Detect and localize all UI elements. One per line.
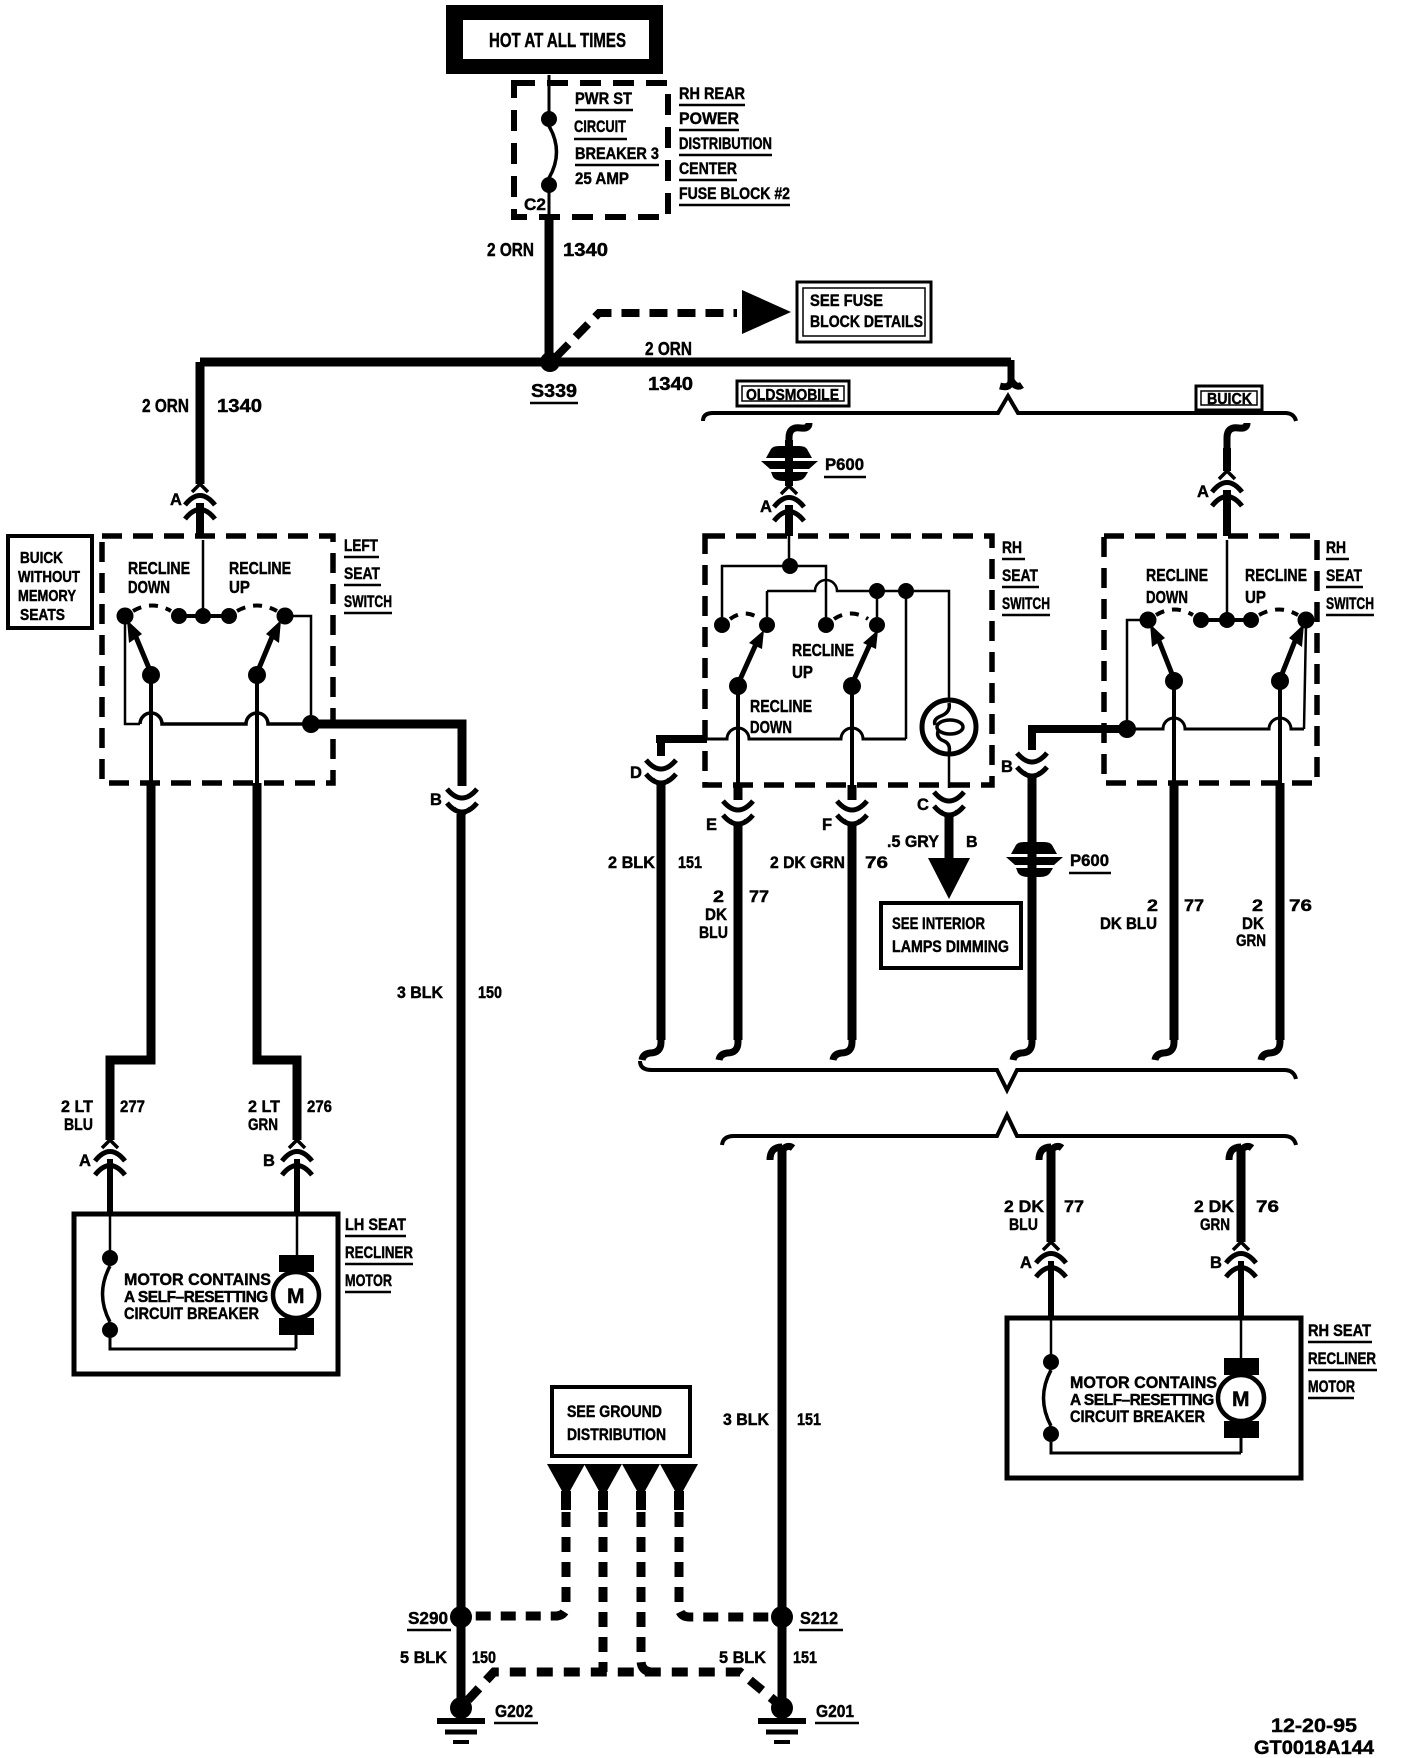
connector B rh motor	[1210, 1242, 1256, 1318]
wire 2 DK BLU 77 to rh motor	[1039, 1146, 1062, 1242]
arrowhead	[742, 290, 791, 334]
svg-text:5 BLK: 5 BLK	[719, 1648, 767, 1667]
svg-text:MEMORY: MEMORY	[18, 588, 77, 605]
label 2 DK BLU 77 (rh motor)	[1004, 1197, 1084, 1234]
wire recline-down output (buick)	[1172, 688, 1176, 783]
svg-text:C2: C2	[524, 195, 546, 214]
splice S290	[450, 1606, 472, 1628]
svg-text:MOTOR CONTAINS: MOTOR CONTAINS	[124, 1270, 271, 1289]
svg-text:BUICK: BUICK	[20, 550, 64, 567]
svg-text:SWITCH: SWITCH	[1002, 595, 1050, 613]
wire feed into buick switch	[1226, 540, 1229, 616]
svg-text:RECLINER: RECLINER	[1308, 1350, 1376, 1368]
label LH SEAT RECLINER MOTOR	[345, 1216, 413, 1292]
svg-text:150: 150	[472, 1648, 496, 1667]
svg-text:SEE GROUND: SEE GROUND	[567, 1403, 662, 1421]
connector A buick switch	[1197, 471, 1242, 536]
switch wiper recline down	[127, 620, 160, 684]
svg-text:5 BLK: 5 BLK	[400, 1648, 448, 1667]
ground arrow 4	[660, 1464, 698, 1510]
svg-text:SEE INTERIOR: SEE INTERIOR	[892, 915, 985, 933]
svg-text:LH SEAT: LH SEAT	[345, 1216, 406, 1234]
connector P600 lower	[1006, 842, 1111, 877]
svg-text:2: 2	[1252, 896, 1263, 915]
wire feed into switch	[202, 540, 205, 612]
SECTION: rh motor	[640, 1061, 1377, 1702]
switch wiper recline up	[248, 620, 281, 684]
hook end buick up wire	[1261, 1036, 1280, 1060]
rh motor internal breaker	[1043, 1318, 1241, 1453]
wire recline-up output (buick)	[1278, 688, 1282, 783]
see interior lamps dimming box	[881, 903, 1021, 968]
svg-text:D: D	[630, 764, 642, 782]
svg-text:GT0018A144: GT0018A144	[1254, 1737, 1374, 1758]
wire left outer contact down	[125, 624, 140, 724]
wire right outer contact down (buick)	[1304, 625, 1306, 729]
svg-text:276: 276	[307, 1097, 332, 1116]
svg-text:UP: UP	[792, 662, 813, 682]
wire switch output to B connector (buick)	[1032, 729, 1127, 750]
hook end D	[642, 1036, 661, 1060]
label RECLINE DOWN / RECLINE UP (buick)	[1146, 565, 1307, 607]
svg-text:1340: 1340	[563, 240, 608, 260]
dashed arrow wire to fuse block details	[556, 313, 737, 357]
label 2 DK BLU 77 (buick)	[1100, 896, 1204, 933]
label RH SEAT SWITCH (buick)	[1326, 539, 1374, 615]
buick box	[1196, 386, 1262, 410]
wire 2 BLK 151 down	[657, 785, 666, 1040]
bridge line upper with hop	[767, 580, 949, 698]
SECTION: footer	[1254, 1716, 1374, 1758]
internal feed line with hops	[140, 713, 311, 724]
svg-text:G202: G202	[495, 1701, 533, 1721]
svg-text:G201: G201	[816, 1701, 854, 1721]
thick D stub out of box	[656, 739, 707, 756]
rh seat switch dashed box (olds)	[705, 536, 992, 785]
wire recline down to motor A	[110, 783, 151, 1140]
buick without memory seats box	[8, 536, 92, 628]
lh motor internal breaker	[102, 1214, 296, 1349]
rh seat switch dashed box (buick)	[1104, 536, 1317, 783]
svg-text:M: M	[1232, 1388, 1250, 1411]
label RECLINE DOWN (olds)	[750, 696, 812, 737]
arrow to interior lamps dimming	[928, 817, 970, 899]
connector A lh motor	[79, 1140, 125, 1214]
svg-text:RH SEAT: RH SEAT	[1308, 1322, 1371, 1340]
svg-text:RECLINE: RECLINE	[1245, 565, 1307, 585]
svg-text:2 BLK: 2 BLK	[608, 853, 656, 872]
stub to contact	[876, 591, 879, 617]
svg-text:LAMPS DIMMING: LAMPS DIMMING	[892, 938, 1009, 956]
connector B	[430, 789, 477, 816]
svg-text:PWR ST: PWR ST	[575, 89, 633, 108]
svg-text:E: E	[706, 816, 717, 834]
svg-text:BLU: BLU	[1009, 1215, 1038, 1234]
wire right junction down to output line	[905, 591, 908, 739]
connector F	[822, 785, 867, 834]
svg-text:P600: P600	[825, 455, 864, 474]
SECTION: buick switch	[1001, 423, 1374, 1060]
svg-text:3 BLK: 3 BLK	[397, 983, 444, 1002]
svg-text:S339: S339	[531, 381, 577, 401]
svg-text:77: 77	[749, 887, 769, 906]
wire 2 DK GRN 76 to rh motor	[1229, 1146, 1252, 1242]
dashed contact arc left	[133, 606, 171, 612]
svg-text:.5 GRY: .5 GRY	[887, 832, 940, 851]
svg-text:GRN: GRN	[1200, 1215, 1230, 1234]
svg-text:12-20-95: 12-20-95	[1271, 1716, 1357, 1737]
right outer contact	[277, 608, 294, 625]
svg-text:277: 277	[120, 1097, 145, 1116]
label 2 LT BLU 277	[61, 1097, 145, 1134]
svg-text:1340: 1340	[217, 396, 262, 416]
wire olds feed through P600	[785, 440, 793, 486]
ground arrow 2	[584, 1464, 622, 1510]
wire 2 ORN 1340 from C2 to S339	[545, 217, 554, 362]
label 2 DK GRN 76 (buick)	[1236, 896, 1312, 950]
label PWR ST CIRCUIT BREAKER 3 25 AMP	[574, 89, 659, 188]
svg-text:SEAT: SEAT	[1002, 567, 1038, 585]
left seat switch dashed box	[102, 536, 333, 783]
dashed ground wire 4 to S212	[679, 1512, 770, 1617]
dashed contact arc left (olds)	[730, 614, 760, 620]
wire recline-down output (olds)	[736, 693, 740, 786]
svg-text:150: 150	[478, 983, 502, 1002]
label 2 LT GRN 276	[248, 1097, 332, 1134]
svg-text:76: 76	[1256, 1197, 1279, 1216]
svg-text:MOTOR CONTAINS: MOTOR CONTAINS	[1070, 1373, 1217, 1392]
ground arrow 1	[547, 1464, 585, 1510]
svg-text:WITHOUT: WITHOUT	[18, 569, 80, 586]
svg-text:SEAT: SEAT	[344, 565, 380, 583]
SECTION: grounds	[400, 1387, 859, 1742]
svg-text:GRN: GRN	[1236, 931, 1266, 950]
svg-text:RH: RH	[1002, 539, 1022, 557]
rh seat recliner motor box	[1007, 1318, 1301, 1478]
brace upper rh continuation	[722, 1115, 1296, 1145]
svg-text:A: A	[170, 491, 182, 509]
svg-text:B: B	[263, 1152, 275, 1170]
svg-text:HOT AT ALL TIMES: HOT AT ALL TIMES	[489, 30, 626, 52]
svg-text:GRN: GRN	[248, 1115, 278, 1134]
svg-text:CENTER: CENTER	[679, 159, 737, 178]
svg-text:RH REAR: RH REAR	[679, 84, 745, 103]
wire recline up to motor B	[257, 783, 297, 1140]
olds switch contacts	[714, 617, 885, 633]
svg-text:2 DK: 2 DK	[1004, 1197, 1045, 1216]
label motor contains a self-resetting circuit breaker (rh)	[1070, 1373, 1217, 1426]
ground G201	[758, 1697, 859, 1742]
svg-text:SEAT: SEAT	[1326, 567, 1362, 585]
buick switch common contact row	[1193, 612, 1259, 628]
see ground distribution box	[552, 1387, 690, 1456]
svg-text:RECLINE: RECLINE	[1146, 565, 1208, 585]
svg-text:BLU: BLU	[64, 1115, 93, 1134]
label RECLINE DOWN / RECLINE UP	[128, 558, 291, 597]
output line D with hops	[707, 728, 906, 739]
connector E	[706, 785, 753, 834]
svg-text:B: B	[966, 834, 978, 851]
ground arrow 3	[622, 1464, 660, 1510]
wire B down through P600	[1028, 778, 1037, 1040]
svg-text:3 BLK: 3 BLK	[723, 1410, 770, 1429]
svg-text:DISTRIBUTION: DISTRIBUTION	[679, 134, 772, 153]
wire 2 DK GRN 76 down	[848, 826, 857, 1040]
wire left branch down	[196, 362, 205, 484]
dashed ground bus to G202 and G201	[468, 1672, 775, 1701]
label RECLINE UP (olds)	[792, 640, 854, 682]
buick wiper recline up	[1271, 624, 1304, 690]
feed junction	[782, 558, 798, 574]
hook end E	[719, 1036, 738, 1060]
right outer contact (buick)	[1298, 612, 1315, 629]
svg-text:DK: DK	[705, 905, 728, 924]
wire recline-up output	[255, 682, 259, 783]
svg-text:FUSE BLOCK #2: FUSE BLOCK #2	[679, 184, 790, 203]
wire junction to left contact	[722, 566, 790, 617]
svg-text:CIRCUIT BREAKER: CIRCUIT BREAKER	[124, 1304, 259, 1323]
svg-text:CIRCUIT BREAKER: CIRCUIT BREAKER	[1070, 1407, 1205, 1426]
SECTION: top power feed	[142, 5, 1296, 536]
svg-text:DOWN: DOWN	[128, 577, 170, 597]
junction	[302, 715, 320, 733]
svg-text:2 ORN: 2 ORN	[487, 240, 534, 260]
svg-text:M: M	[287, 1285, 305, 1308]
svg-text:POWER: POWER	[679, 109, 739, 128]
dashed ground wire 3	[641, 1512, 653, 1672]
svg-text:RECLINE: RECLINE	[792, 640, 854, 660]
svg-text:B: B	[1210, 1254, 1222, 1272]
svg-text:2 ORN: 2 ORN	[645, 339, 692, 359]
dashed contact arc left (buick)	[1156, 610, 1193, 616]
label RH SEAT SWITCH (olds)	[1002, 539, 1050, 615]
bus end hook	[1000, 360, 1022, 387]
svg-text:LEFT: LEFT	[344, 537, 378, 555]
lh motor M symbol	[273, 1214, 319, 1349]
svg-text:B: B	[1001, 758, 1013, 776]
fuse block dashed box	[514, 83, 668, 217]
svg-text:RECLINER: RECLINER	[345, 1244, 413, 1262]
svg-text:RECLINE: RECLINE	[128, 558, 190, 578]
svg-text:151: 151	[793, 1648, 817, 1667]
wire recline-down output	[149, 682, 153, 783]
wire 3 BLK 151 to S212	[770, 1146, 793, 1702]
svg-text:DK BLU: DK BLU	[1100, 914, 1157, 933]
svg-text:DOWN: DOWN	[750, 717, 792, 737]
connector A left seat switch	[170, 484, 215, 536]
svg-text:2 DK GRN: 2 DK GRN	[770, 853, 845, 872]
svg-text:BUICK: BUICK	[1207, 391, 1252, 408]
wire hook top buick feed	[1227, 423, 1247, 452]
svg-text:S212: S212	[800, 1608, 838, 1628]
svg-text:77: 77	[1184, 896, 1204, 915]
svg-text:DISTRIBUTION: DISTRIBUTION	[567, 1425, 666, 1444]
svg-text:2: 2	[1147, 896, 1158, 915]
wire right outer contact to feed corner	[285, 616, 311, 715]
olds wiper recline up	[843, 630, 878, 695]
svg-text:UP: UP	[229, 577, 250, 597]
svg-text:151: 151	[678, 853, 702, 872]
lh seat recliner motor box	[74, 1214, 338, 1374]
SECTION: oldsmobile switch	[608, 423, 1050, 1060]
svg-text:A: A	[1020, 1254, 1032, 1272]
connector B (buick)	[1001, 753, 1047, 780]
svg-text:BLOCK DETAILS: BLOCK DETAILS	[810, 313, 923, 331]
svg-text:A: A	[79, 1152, 91, 1170]
svg-text:UP: UP	[1245, 587, 1266, 607]
circuit breaker 3	[541, 75, 557, 217]
svg-text:1340: 1340	[648, 374, 693, 394]
see fuse block details box	[797, 282, 931, 342]
label 2 DK BLU 77	[699, 887, 769, 942]
left outer contact	[117, 608, 134, 625]
connector B lh motor	[263, 1140, 312, 1214]
wire feed into olds switch	[788, 536, 791, 562]
svg-text:B: B	[430, 791, 442, 809]
svg-text:RECLINE: RECLINE	[229, 558, 291, 578]
dashed contact arc right (olds)	[834, 614, 868, 620]
svg-text:76: 76	[865, 853, 888, 872]
main bus wire	[200, 358, 1011, 367]
interior lamp	[922, 700, 976, 754]
label RH REAR POWER DISTRIBUTION CENTER FUSE BLOCK #2	[679, 84, 790, 203]
connector D	[630, 760, 676, 787]
svg-text:2 ORN: 2 ORN	[142, 396, 189, 416]
switch common contact row	[171, 608, 237, 624]
wire buick feed	[1223, 448, 1231, 471]
svg-text:151: 151	[797, 1410, 821, 1429]
svg-text:DOWN: DOWN	[1146, 587, 1188, 607]
svg-text:2 LT: 2 LT	[248, 1097, 281, 1116]
svg-text:MOTOR: MOTOR	[1308, 1378, 1355, 1396]
brace lower olds/buick	[640, 1061, 1296, 1090]
connector P600 upper	[761, 446, 866, 481]
olds wiper recline down	[729, 630, 764, 695]
hook end buick down wire	[1155, 1036, 1174, 1060]
wire junction to center contact	[790, 566, 826, 617]
svg-text:F: F	[822, 816, 832, 834]
wire buick recline-down down	[1170, 783, 1179, 1040]
label LEFT SEAT SWITCH	[344, 537, 392, 613]
svg-text:C: C	[917, 796, 929, 814]
svg-text:P600: P600	[1070, 851, 1109, 870]
dashed ground wire 1 to S290	[472, 1512, 566, 1616]
wire left outer contact to junction (buick)	[1127, 620, 1148, 720]
svg-text:25 AMP: 25 AMP	[575, 169, 629, 188]
junction (buick)	[1118, 720, 1136, 738]
label RH SEAT RECLINER MOTOR	[1308, 1322, 1377, 1398]
svg-text:SEATS: SEATS	[20, 607, 65, 624]
wire lamp to C	[948, 754, 951, 788]
hot at all times box	[446, 5, 663, 74]
hook end B wire	[1013, 1036, 1032, 1060]
wire 2 DK BLU 77 down	[734, 826, 743, 1040]
SECTION: lh motor	[61, 783, 413, 1374]
label motor contains a self-resetting circuit breaker	[124, 1270, 271, 1323]
svg-text:MOTOR: MOTOR	[345, 1272, 392, 1290]
svg-text:2 LT: 2 LT	[61, 1097, 94, 1116]
hook end F	[833, 1036, 852, 1060]
wire switch output to B connector	[311, 724, 462, 786]
left outer contact (buick)	[1140, 612, 1157, 629]
label 2 DK GRN 76 (rh motor)	[1194, 1197, 1279, 1234]
wire buick recline-up down	[1276, 783, 1285, 1040]
svg-text:77: 77	[1064, 1197, 1084, 1216]
svg-text:A: A	[760, 498, 772, 516]
internal feed line with hops (buick)	[1127, 718, 1304, 729]
svg-text:2: 2	[713, 887, 724, 906]
svg-text:CIRCUIT: CIRCUIT	[574, 117, 626, 136]
ground G202	[437, 1697, 538, 1742]
brace oldsmobile/buick split	[703, 396, 1296, 421]
svg-text:S290: S290	[408, 1608, 448, 1628]
svg-text:SWITCH: SWITCH	[344, 593, 392, 611]
SECTION: left seat switch	[8, 536, 502, 1702]
dashed contact arc right	[237, 606, 277, 612]
svg-text:A: A	[1197, 483, 1209, 501]
svg-text:76: 76	[1289, 896, 1312, 915]
svg-text:BREAKER 3: BREAKER 3	[575, 144, 659, 163]
splice S212	[771, 1606, 793, 1628]
oldsmobile box	[737, 381, 849, 406]
connector A olds switch	[760, 486, 804, 536]
wire hook top olds feed	[789, 423, 809, 452]
wire 3 BLK 150 down to S290	[457, 814, 466, 1702]
wire recline-up output (olds)	[850, 693, 854, 786]
svg-text:2 DK: 2 DK	[1194, 1197, 1235, 1216]
junction dots on bridge	[869, 583, 885, 599]
connector C	[917, 792, 964, 819]
svg-text:BLU: BLU	[699, 923, 728, 942]
svg-text:OLDSMOBILE: OLDSMOBILE	[746, 387, 839, 404]
svg-text:SWITCH: SWITCH	[1326, 595, 1374, 613]
splice node S339	[540, 352, 560, 372]
svg-text:SEE FUSE: SEE FUSE	[810, 292, 883, 310]
buick wiper recline down	[1150, 624, 1183, 690]
svg-text:RECLINE: RECLINE	[750, 696, 812, 716]
dashed contact arc right (buick)	[1259, 610, 1298, 616]
connector A rh motor	[1020, 1242, 1066, 1318]
dashed ground wire 2	[599, 1512, 608, 1672]
rh motor M symbol	[1218, 1318, 1264, 1453]
svg-text:RH: RH	[1326, 539, 1346, 557]
